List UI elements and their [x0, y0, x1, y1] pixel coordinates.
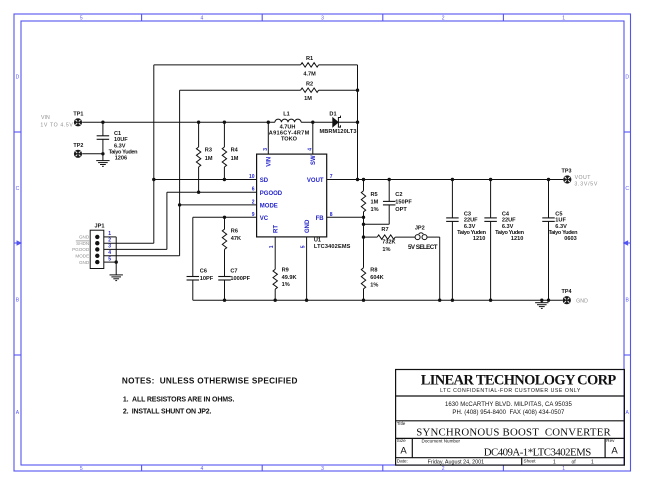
svg-text:C1: C1 — [114, 131, 121, 137]
svg-text:TP4: TP4 — [562, 289, 572, 295]
svg-text:GND: GND — [79, 234, 90, 239]
svg-text:SYNCHRONOUS BOOST CONVERTER: SYNCHRONOUS BOOST CONVERTER — [416, 427, 611, 439]
svg-text:3: 3 — [321, 466, 324, 472]
svg-text:C: C — [16, 186, 20, 192]
svg-text:1: 1 — [562, 466, 565, 472]
svg-text:1%: 1% — [382, 247, 390, 253]
svg-text:FB: FB — [316, 216, 325, 222]
svg-text:4: 4 — [108, 250, 111, 256]
svg-text:TP3: TP3 — [562, 168, 572, 174]
svg-text:5: 5 — [80, 466, 83, 472]
svg-text:C5: C5 — [555, 212, 562, 218]
svg-text:of: of — [572, 459, 577, 465]
svg-text:U1: U1 — [314, 237, 321, 243]
svg-text:L1: L1 — [283, 111, 290, 117]
svg-text:3: 3 — [321, 16, 324, 22]
svg-text:D: D — [625, 75, 629, 81]
svg-text:5: 5 — [301, 245, 307, 248]
svg-text:C: C — [625, 186, 629, 192]
svg-text:1: 1 — [591, 459, 594, 465]
svg-text:1M: 1M — [231, 156, 239, 162]
svg-text:0603: 0603 — [564, 236, 576, 242]
svg-text:TP2: TP2 — [73, 143, 83, 149]
svg-text:1%: 1% — [282, 282, 290, 288]
svg-text:5: 5 — [80, 16, 83, 22]
svg-text:Date:: Date: — [397, 459, 408, 464]
svg-text:VC: VC — [260, 216, 269, 222]
svg-text:1206: 1206 — [115, 156, 127, 162]
svg-text:GND: GND — [576, 298, 588, 304]
svg-text:8: 8 — [330, 212, 333, 218]
svg-text:VOUT: VOUT — [307, 178, 324, 184]
svg-text:JP1: JP1 — [95, 224, 105, 230]
svg-text:1. ALL RESISTORS ARE IN OHMS.: 1. ALL RESISTORS ARE IN OHMS. — [123, 397, 235, 404]
svg-text:1000PF: 1000PF — [230, 276, 250, 282]
svg-text:Size: Size — [397, 438, 406, 443]
svg-text:1: 1 — [553, 459, 556, 465]
svg-text:2. INSTALL SHUNT ON JP2.: 2. INSTALL SHUNT ON JP2. — [123, 409, 212, 416]
svg-text:A: A — [611, 446, 618, 457]
svg-text:732K: 732K — [382, 240, 395, 246]
svg-text:SD: SD — [260, 178, 269, 184]
svg-text:D: D — [16, 75, 20, 81]
svg-text:4.7M: 4.7M — [303, 71, 316, 77]
svg-text:Friday, August 24, 2001: Friday, August 24, 2001 — [428, 459, 485, 465]
svg-text:GND: GND — [305, 219, 311, 233]
svg-text:VIN: VIN — [41, 115, 50, 121]
svg-text:3: 3 — [263, 148, 269, 151]
svg-text:1M: 1M — [371, 200, 379, 206]
svg-text:DC409A-1*LTC3402EMS: DC409A-1*LTC3402EMS — [484, 446, 592, 458]
svg-text:NOTES: UNLESS OTHERWISE SPECI: NOTES: UNLESS OTHERWISE SPECIFIED — [122, 377, 298, 386]
svg-text:5: 5 — [108, 256, 111, 262]
svg-text:VOUT: VOUT — [575, 175, 592, 181]
svg-text:A916CY-4R7M: A916CY-4R7M — [269, 131, 310, 137]
svg-text:1%: 1% — [370, 282, 378, 288]
svg-text:MBRM120LT3: MBRM120LT3 — [320, 129, 357, 135]
svg-text:D1: D1 — [329, 111, 336, 117]
svg-text:1M: 1M — [205, 156, 213, 162]
svg-text:6.3V: 6.3V — [502, 224, 514, 230]
svg-text:SHDN: SHDN — [76, 241, 89, 246]
svg-text:Taiyo Yuden: Taiyo Yuden — [457, 230, 487, 236]
svg-text:22UF: 22UF — [464, 218, 478, 224]
svg-text:1210: 1210 — [511, 236, 523, 242]
svg-text:47K: 47K — [231, 236, 241, 242]
svg-text:C6: C6 — [200, 269, 207, 275]
svg-text:604K: 604K — [370, 275, 383, 281]
svg-text:R4: R4 — [231, 147, 239, 153]
svg-text:C3: C3 — [464, 212, 471, 218]
svg-text:150PF: 150PF — [395, 200, 412, 206]
svg-text:Rev: Rev — [606, 438, 615, 443]
svg-text:R1: R1 — [306, 56, 313, 62]
svg-text:Taiyo Yuden: Taiyo Yuden — [549, 230, 579, 236]
svg-text:R5: R5 — [371, 192, 378, 198]
svg-text:C4: C4 — [502, 212, 510, 218]
svg-text:6.3V: 6.3V — [555, 224, 567, 230]
svg-text:PGOOD: PGOOD — [260, 191, 283, 197]
svg-text:3: 3 — [108, 244, 111, 250]
svg-text:22UF: 22UF — [502, 218, 516, 224]
svg-text:PH. (408) 954-8400 FAX (408): PH. (408) 954-8400 FAX (408) 434-0507 — [452, 410, 565, 416]
svg-text:7: 7 — [330, 174, 333, 180]
svg-text:Document Number: Document Number — [422, 439, 461, 444]
svg-text:GND: GND — [79, 260, 90, 265]
svg-text:1%: 1% — [371, 207, 379, 213]
svg-text:9: 9 — [252, 212, 255, 218]
svg-text:MODE: MODE — [260, 204, 278, 210]
svg-text:C2: C2 — [395, 192, 402, 198]
svg-text:OPT: OPT — [395, 207, 407, 213]
svg-text:R9: R9 — [282, 268, 289, 274]
svg-text:10UF: 10UF — [114, 137, 128, 143]
svg-text:Title: Title — [397, 421, 406, 426]
svg-text:4.7UH: 4.7UH — [280, 124, 296, 130]
svg-text:4: 4 — [201, 466, 204, 472]
svg-text:C7: C7 — [230, 269, 237, 275]
svg-text:R7: R7 — [381, 227, 388, 233]
svg-text:Taiyo Yuden: Taiyo Yuden — [495, 230, 525, 236]
svg-text:TOKO: TOKO — [281, 137, 298, 143]
svg-text:3.3V/5V: 3.3V/5V — [574, 182, 598, 188]
svg-text:MODE: MODE — [75, 254, 89, 259]
svg-text:Sheet: Sheet — [524, 459, 537, 464]
svg-text:2: 2 — [442, 16, 445, 22]
svg-text:1: 1 — [562, 16, 565, 22]
svg-text:2: 2 — [442, 466, 445, 472]
svg-text:4: 4 — [307, 148, 313, 151]
svg-text:R8: R8 — [370, 268, 377, 274]
svg-text:VIN: VIN — [266, 157, 272, 167]
svg-text:10: 10 — [249, 174, 255, 180]
svg-text:1M: 1M — [304, 96, 312, 102]
svg-text:SW: SW — [311, 155, 317, 165]
svg-text:1630 McCARTHY BLVD. MILPITAS,: 1630 McCARTHY BLVD. MILPITAS, CA 95035 — [445, 402, 573, 408]
svg-text:JP2: JP2 — [415, 225, 425, 231]
svg-text:TP1: TP1 — [73, 112, 83, 118]
svg-text:10PF: 10PF — [200, 276, 214, 282]
svg-text:6.3V: 6.3V — [114, 143, 126, 149]
svg-text:A: A — [400, 446, 407, 457]
svg-text:LINEAR TECHNOLOGY CORP: LINEAR TECHNOLOGY CORP — [421, 372, 617, 388]
svg-text:6: 6 — [252, 187, 255, 193]
svg-text:2: 2 — [252, 199, 255, 205]
svg-text:R2: R2 — [306, 81, 313, 87]
svg-text:R6: R6 — [231, 229, 238, 235]
svg-text:1V TO 4.5V: 1V TO 4.5V — [40, 123, 73, 129]
svg-text:R3: R3 — [205, 147, 212, 153]
svg-text:PGOOD: PGOOD — [72, 247, 90, 252]
svg-text:RT: RT — [273, 225, 279, 233]
svg-text:LTC3402EMS: LTC3402EMS — [314, 244, 351, 250]
svg-text:1210: 1210 — [473, 236, 485, 242]
svg-text:49.9K: 49.9K — [282, 275, 297, 281]
svg-text:4: 4 — [201, 16, 204, 22]
svg-text:6.3V: 6.3V — [464, 224, 476, 230]
svg-text:1UF: 1UF — [555, 218, 566, 224]
svg-text:Taiyo Yuden: Taiyo Yuden — [109, 150, 139, 156]
svg-text:1: 1 — [108, 231, 111, 237]
svg-text:2: 2 — [108, 238, 111, 244]
svg-text:5V SELECT: 5V SELECT — [408, 244, 438, 251]
svg-text:1: 1 — [269, 245, 275, 248]
svg-text:LTC CONFIDENTIAL-FOR CUSTOMER: LTC CONFIDENTIAL-FOR CUSTOMER USE ONLY — [440, 388, 581, 394]
